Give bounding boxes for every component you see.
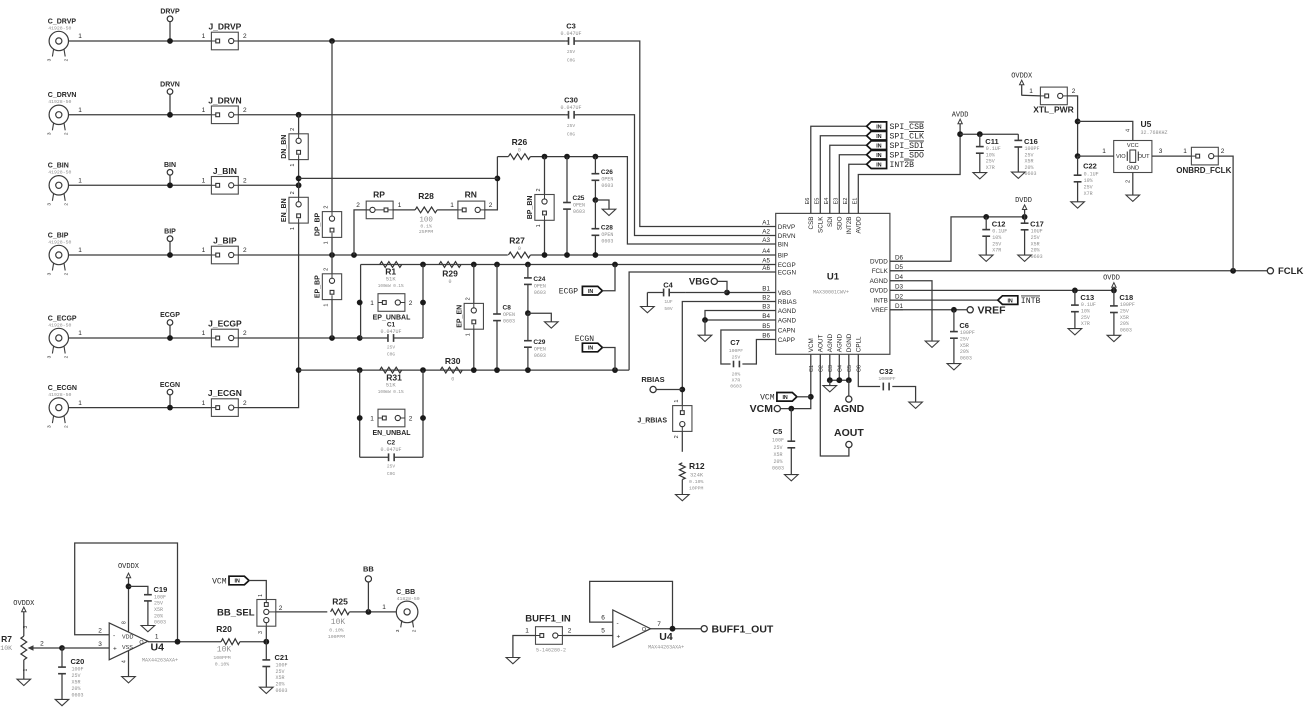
junction (263, 639, 269, 645)
capacitor C11 (979, 134, 981, 146)
svg-text:10%: 10% (1084, 178, 1093, 184)
connector C_DRVN (49, 105, 68, 124)
svg-text:R29: R29 (442, 269, 458, 279)
capacitor C6 (953, 310, 955, 332)
svg-text:AVDD: AVDD (856, 216, 863, 233)
svg-text:R20: R20 (216, 624, 232, 634)
svg-text:20%: 20% (1025, 165, 1034, 171)
svg-text:2: 2 (63, 203, 69, 206)
svg-text:DRVN: DRVN (778, 233, 796, 240)
junction (525, 310, 531, 316)
ground (979, 255, 993, 261)
svg-text:25V: 25V (567, 49, 576, 55)
svg-text:1: 1 (1183, 148, 1187, 155)
svg-text:D6: D6 (895, 255, 904, 262)
svg-text:6: 6 (601, 615, 605, 622)
svg-text:SPI_SDI: SPI_SDI (890, 142, 924, 151)
svg-text:0.10%: 0.10% (329, 628, 344, 634)
capacitor C32 (882, 383, 884, 391)
svg-text:CAPP: CAPP (778, 337, 795, 344)
ground (595, 200, 609, 209)
wire R31 left column (359, 370, 361, 457)
svg-text:C3: C3 (566, 22, 576, 31)
svg-text:OPEN: OPEN (601, 177, 613, 183)
svg-text:C_BB: C_BB (396, 589, 415, 596)
wire (276, 611, 328, 613)
svg-text:J_DRVP: J_DRVP (208, 22, 241, 32)
svg-text:25V: 25V (1120, 309, 1129, 315)
svg-text:AGND: AGND (870, 278, 889, 285)
svg-text:C19: C19 (154, 585, 168, 594)
svg-text:0603: 0603 (601, 239, 613, 245)
junction (808, 394, 814, 400)
svg-text:2: 2 (63, 132, 69, 135)
svg-text:IN: IN (1007, 298, 1012, 304)
svg-text:0.1UF: 0.1UF (1081, 302, 1096, 308)
wire AVDD pin to rail (858, 134, 960, 213)
svg-text:OVDDX: OVDDX (118, 563, 140, 571)
svg-text:B1: B1 (762, 286, 770, 293)
svg-text:51K: 51K (386, 276, 397, 283)
svg-text:R30: R30 (445, 356, 461, 366)
capacitor C16 (1017, 134, 1019, 140)
svg-text:AGND: AGND (827, 334, 834, 353)
svg-text:DRVP: DRVP (160, 9, 180, 16)
svg-text:C22: C22 (1083, 162, 1097, 171)
svg-text:D1: D1 (895, 303, 904, 310)
svg-text:EP_UNBAL: EP_UNBAL (373, 315, 411, 322)
svg-text:IN: IN (235, 579, 240, 585)
svg-text:2: 2 (290, 191, 296, 194)
svg-text:100F: 100F (772, 438, 784, 444)
svg-text:2: 2 (63, 272, 69, 275)
svg-text:ONBRD_FCLK: ONBRD_FCLK (1176, 166, 1231, 175)
svg-text:MAX44263AXA+: MAX44263AXA+ (142, 658, 178, 664)
jumper ONBRD_FCLK (1191, 147, 1218, 165)
svg-text:25V: 25V (567, 123, 576, 129)
wire BIP row (A4) (238, 254, 508, 256)
ground (947, 364, 961, 370)
wire (685, 292, 727, 294)
svg-text:C4: C4 (837, 365, 843, 372)
svg-text:1: 1 (290, 227, 296, 230)
svg-text:ECGN: ECGN (160, 382, 180, 389)
capacitor C3 (566, 40, 569, 42)
svg-text:1: 1 (78, 33, 82, 40)
svg-text:1: 1 (78, 178, 82, 185)
svg-text:BP_BN: BP_BN (527, 196, 534, 220)
terminal VCM (774, 406, 780, 412)
potentiometer R7 (21, 636, 27, 660)
svg-text:X5R: X5R (72, 680, 81, 686)
svg-text:0: 0 (518, 148, 521, 154)
svg-text:D5: D5 (895, 264, 904, 271)
junction (1075, 119, 1081, 125)
svg-text:J_DRVN: J_DRVN (208, 95, 241, 105)
connector C_ECGN (49, 398, 68, 417)
svg-text:U1: U1 (827, 272, 840, 283)
svg-text:100F: 100F (72, 667, 84, 673)
junction (471, 367, 477, 373)
wire DP/EP rail (331, 41, 333, 212)
svg-text:0603: 0603 (960, 355, 972, 361)
wire R31 right column (422, 370, 424, 457)
svg-text:1: 1 (525, 628, 529, 635)
svg-text:VBG: VBG (689, 277, 710, 288)
svg-text:41928-50: 41928-50 (48, 392, 71, 398)
svg-text:C11: C11 (985, 137, 998, 146)
svg-text:3: 3 (47, 132, 53, 135)
jumper BP_BN (544, 157, 546, 195)
svg-text:324K: 324K (690, 472, 704, 479)
junction (1075, 153, 1081, 159)
svg-text:2: 2 (409, 416, 413, 423)
svg-text:R12: R12 (689, 461, 705, 471)
svg-text:0603: 0603 (276, 688, 288, 694)
svg-text:2: 2 (356, 202, 360, 209)
svg-text:U4: U4 (659, 631, 673, 643)
wire R27 to U1 A4 (530, 254, 775, 256)
wire (69, 114, 212, 116)
junction (167, 252, 173, 258)
ground (260, 687, 274, 693)
junction (357, 335, 363, 341)
capacitor C19 (129, 586, 148, 594)
svg-text:VCM: VCM (808, 338, 815, 352)
wire (240, 641, 266, 643)
svg-text:BUFF1_OUT: BUFF1_OUT (712, 624, 774, 636)
svg-text:+: + (113, 646, 117, 653)
svg-text:10K: 10K (0, 645, 12, 652)
svg-text:DRVP: DRVP (778, 224, 795, 231)
wire to BB_SEL (265, 626, 267, 642)
svg-text:3: 3 (23, 626, 29, 629)
wire A6 row (299, 369, 629, 371)
resistor R29 (439, 262, 461, 268)
junction (175, 639, 181, 645)
svg-text:25V: 25V (732, 355, 741, 361)
svg-text:1: 1 (202, 400, 206, 407)
svg-text:IN: IN (876, 153, 881, 159)
junction (357, 300, 363, 306)
wire (23, 660, 25, 679)
junction (670, 626, 676, 632)
svg-text:0603: 0603 (573, 209, 585, 215)
connector C_BIN (49, 176, 68, 195)
svg-text:OUT: OUT (1138, 154, 1150, 160)
wire (331, 237, 333, 273)
svg-text:C2: C2 (818, 365, 824, 372)
wire VREF (890, 309, 967, 311)
wire (249, 581, 266, 600)
svg-text:20%: 20% (960, 349, 969, 355)
wire (69, 407, 212, 409)
junction (357, 415, 363, 421)
junction (836, 377, 842, 383)
svg-text:100mW 0.1%: 100mW 0.1% (378, 284, 404, 289)
svg-text:25V: 25V (986, 159, 995, 165)
terminal AGND (848, 380, 850, 396)
svg-text:1: 1 (370, 300, 374, 307)
svg-text:B2: B2 (762, 295, 770, 302)
wire CPLL (858, 354, 880, 386)
capacitor C21 (265, 642, 267, 660)
svg-text:SPI_CLK: SPI_CLK (890, 133, 924, 142)
wire RBIAS (682, 302, 775, 406)
svg-text:1UF: 1UF (664, 299, 673, 305)
junction (167, 405, 173, 411)
oscillator U5 (1114, 141, 1152, 173)
svg-text:2: 2 (465, 297, 471, 300)
svg-text:2: 2 (1126, 180, 1132, 183)
svg-text:J_BIN: J_BIN (213, 166, 237, 176)
junction (167, 182, 173, 188)
capacitor C5 (790, 409, 792, 442)
wire BIN to rail (238, 184, 298, 186)
wire (1067, 96, 1077, 156)
svg-text:DVDD: DVDD (1015, 197, 1032, 205)
wire VSS (128, 651, 130, 677)
svg-text:B6: B6 (762, 333, 770, 340)
capacitor C2 (360, 456, 389, 458)
svg-text:0.1UF: 0.1UF (986, 146, 1001, 152)
wire DRVN to C30 (238, 114, 565, 116)
svg-text:3: 3 (1159, 148, 1163, 155)
junction (167, 335, 173, 341)
svg-text:C7: C7 (730, 338, 740, 347)
ground (122, 677, 136, 683)
svg-text:25PPM: 25PPM (419, 229, 434, 235)
wire AOUT pin (820, 354, 849, 456)
ground U5 GND (1132, 173, 1134, 196)
IC U1 MAX30001 (776, 213, 890, 354)
svg-text:SCLK: SCLK (818, 216, 825, 233)
svg-text:0.047UF: 0.047UF (560, 31, 581, 37)
wire VCC (1078, 121, 1133, 140)
svg-text:VCM: VCM (212, 577, 227, 586)
svg-text:AVDD: AVDD (952, 112, 969, 120)
svg-text:X5R: X5R (960, 343, 969, 349)
wire VCM pin (780, 354, 810, 408)
svg-text:0: 0 (451, 376, 454, 382)
svg-text:C25: C25 (573, 195, 585, 202)
svg-text:C24: C24 (533, 276, 545, 283)
testpoint BIN (167, 170, 173, 176)
ground (1071, 202, 1085, 208)
svg-text:VDD: VDD (122, 635, 133, 641)
junction (983, 214, 989, 220)
svg-text:1: 1 (1102, 148, 1106, 155)
wire B3 (705, 311, 776, 321)
junction (542, 252, 548, 258)
capacitor C18 (1113, 290, 1115, 306)
capacitor C8 (496, 265, 498, 315)
svg-text:1: 1 (23, 669, 29, 672)
wire (960, 133, 1018, 135)
junction (679, 387, 685, 393)
wire (1022, 94, 1041, 97)
svg-text:B4: B4 (762, 313, 770, 320)
wire ECGN to rail (238, 370, 298, 408)
svg-text:C3: C3 (828, 365, 834, 372)
svg-text:10K: 10K (331, 618, 346, 627)
wire ECGP to rail (238, 337, 359, 339)
svg-text:R28: R28 (418, 191, 434, 201)
capacitor C17 (1024, 217, 1026, 223)
ground (1018, 255, 1032, 261)
junction (564, 252, 570, 258)
svg-text:1: 1 (674, 400, 680, 403)
svg-text:25V: 25V (1084, 185, 1093, 191)
ground (17, 679, 31, 685)
svg-text:25V: 25V (992, 241, 1001, 247)
svg-text:20%: 20% (72, 686, 81, 692)
svg-text:2: 2 (243, 33, 247, 40)
connector C_DRVP (49, 31, 68, 50)
flag SPI_CLK (820, 136, 866, 214)
svg-text:25V: 25V (1025, 152, 1034, 158)
svg-text:4: 4 (1126, 129, 1132, 132)
junction (1230, 268, 1236, 274)
svg-text:1: 1 (398, 202, 402, 209)
svg-text:CSB: CSB (808, 217, 815, 230)
svg-text:2: 2 (324, 268, 330, 271)
jumper J_DRVN (211, 106, 238, 124)
svg-text:MAX30001CWV+: MAX30001CWV+ (813, 290, 849, 296)
ground (646, 293, 648, 307)
svg-text:0.047UF: 0.047UF (380, 329, 401, 335)
jumper J_BIP (211, 246, 238, 264)
wire C30 to U1 A2 (577, 115, 776, 236)
svg-text:20%: 20% (1120, 321, 1129, 327)
junction (542, 154, 548, 160)
svg-text:AGND: AGND (833, 403, 864, 415)
svg-text:2: 2 (536, 188, 542, 191)
resistor R31 (380, 367, 402, 373)
flag INT2B (849, 164, 867, 213)
wire R1 left column (360, 265, 362, 339)
svg-text:2: 2 (63, 425, 69, 428)
svg-text:1: 1 (202, 33, 206, 40)
wire VBG (727, 292, 776, 294)
svg-text:VCM: VCM (750, 403, 774, 415)
capacitor C30 (566, 114, 569, 116)
svg-text:2: 2 (243, 247, 247, 254)
wire CAPP (742, 340, 775, 365)
svg-text:0.047UF: 0.047UF (380, 447, 401, 453)
svg-text:J_ECGN: J_ECGN (208, 388, 242, 398)
junction (525, 262, 531, 268)
jumper EP_EN (473, 265, 475, 304)
svg-text:1: 1 (78, 107, 82, 114)
svg-text:2: 2 (674, 435, 680, 438)
svg-text:C_ECGN: C_ECGN (48, 385, 77, 392)
svg-text:100mW 0.1%: 100mW 0.1% (378, 390, 404, 395)
power OVDDX (1020, 80, 1024, 85)
svg-text:X7R: X7R (732, 378, 741, 384)
ground (829, 380, 831, 385)
svg-text:0603: 0603 (601, 183, 613, 189)
svg-text:IN: IN (588, 346, 593, 352)
svg-text:A6: A6 (762, 265, 770, 272)
wire FCLK (890, 270, 1267, 272)
svg-text:E4: E4 (824, 198, 830, 205)
svg-text:2: 2 (1221, 148, 1225, 155)
svg-text:DP_BP: DP_BP (315, 212, 322, 236)
svg-text:C18: C18 (1119, 293, 1133, 302)
svg-text:2: 2 (412, 629, 418, 632)
ground (1107, 335, 1121, 341)
svg-text:C0G: C0G (387, 352, 396, 358)
jumper BB_SEL (257, 600, 276, 627)
jumper EP_BP (322, 274, 341, 300)
svg-text:C1: C1 (387, 322, 396, 329)
svg-text:X7R: X7R (986, 165, 995, 171)
capacitor C28 (594, 200, 596, 229)
svg-text:ECGP: ECGP (778, 262, 796, 269)
svg-text:R26: R26 (512, 137, 528, 147)
terminal FCLK (1267, 268, 1273, 274)
svg-text:B5: B5 (762, 323, 770, 330)
wire OVDD net (890, 289, 1114, 291)
junction (494, 367, 500, 373)
svg-text:X7R: X7R (992, 248, 1001, 254)
svg-text:41928-50: 41928-50 (48, 25, 71, 31)
testpoint DRVP (167, 16, 173, 22)
svg-text:2: 2 (290, 128, 296, 131)
svg-text:10%: 10% (992, 235, 1001, 241)
svg-text:25V: 25V (960, 337, 969, 343)
svg-text:2: 2 (1072, 88, 1076, 95)
jumper RP (366, 201, 393, 219)
capacitor C22 (1077, 156, 1079, 175)
svg-text:X5R: X5R (1031, 241, 1040, 247)
svg-text:OPEN: OPEN (503, 312, 515, 318)
wire DVDD net (890, 217, 1025, 261)
svg-text:2: 2 (40, 641, 44, 648)
wire R1 right column (422, 265, 424, 339)
svg-text:B3: B3 (762, 304, 770, 311)
svg-text:51K: 51K (386, 382, 397, 389)
svg-text:XTL_PWR: XTL_PWR (1033, 105, 1074, 115)
svg-text:0603: 0603 (1025, 171, 1037, 177)
svg-text:EP_EN: EP_EN (456, 305, 463, 328)
junction (977, 131, 983, 137)
junction (593, 197, 599, 203)
svg-text:RBIAS: RBIAS (778, 299, 797, 306)
svg-text:41928-50: 41928-50 (48, 239, 71, 245)
junction (1111, 288, 1117, 294)
svg-text:0603: 0603 (772, 466, 784, 472)
power OVDDX R7 (22, 607, 26, 612)
junction (788, 406, 794, 412)
junction (702, 317, 708, 323)
jumper EP_UNBAL (378, 294, 405, 312)
svg-text:C0G: C0G (567, 58, 576, 64)
svg-text:OVDDX: OVDDX (13, 600, 35, 608)
junction (593, 252, 599, 258)
svg-text:1: 1 (324, 241, 330, 244)
junction (593, 154, 599, 160)
jumper EN_UNBAL (378, 409, 405, 427)
junction (612, 262, 618, 268)
wire OUT (1152, 155, 1192, 157)
svg-text:C16: C16 (1024, 137, 1038, 146)
svg-text:R7: R7 (1, 634, 12, 644)
svg-text:1: 1 (202, 330, 206, 337)
svg-text:0603: 0603 (72, 693, 84, 699)
svg-text:100F: 100F (276, 662, 288, 668)
